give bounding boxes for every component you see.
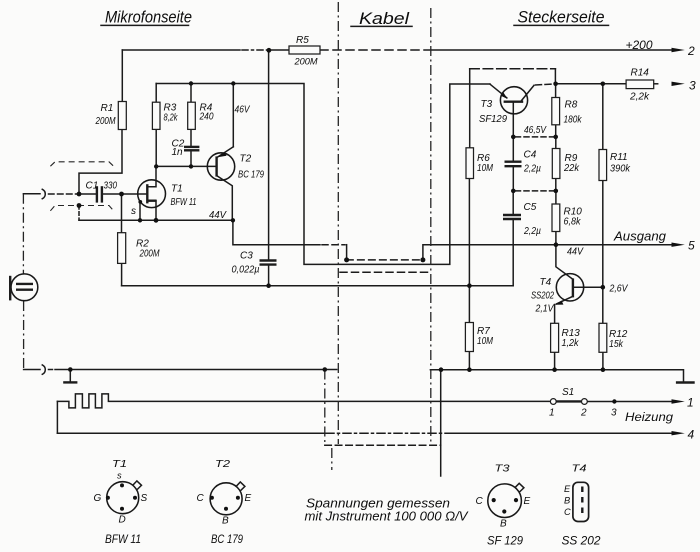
- svg-text:B: B: [564, 496, 570, 506]
- svg-text:2,1V: 2,1V: [535, 304, 555, 315]
- svg-text:C3: C3: [240, 251, 253, 262]
- svg-text:2,2µ: 2,2µ: [523, 164, 541, 175]
- svg-text:44V: 44V: [209, 210, 227, 221]
- svg-text:4: 4: [688, 428, 695, 442]
- svg-text:200M: 200M: [139, 249, 160, 260]
- svg-text:T1: T1: [171, 184, 183, 195]
- svg-text:E: E: [524, 496, 531, 507]
- svg-text:C: C: [476, 496, 484, 507]
- svg-text:+200: +200: [626, 40, 654, 52]
- svg-text:D: D: [119, 515, 126, 526]
- svg-text:0,022µ: 0,022µ: [232, 265, 260, 276]
- svg-text:2: 2: [687, 44, 695, 58]
- svg-text:SS 202: SS 202: [562, 534, 601, 548]
- svg-text:Ausgang: Ausgang: [613, 230, 666, 244]
- svg-text:180k: 180k: [564, 115, 583, 126]
- svg-text:Spannungen gemessen: Spannungen gemessen: [306, 497, 450, 511]
- svg-text:S: S: [141, 493, 148, 504]
- svg-text:2,6V: 2,6V: [609, 284, 629, 295]
- svg-text:E: E: [245, 493, 252, 504]
- svg-text:Heizung: Heizung: [625, 410, 673, 424]
- svg-text:390k: 390k: [610, 164, 631, 175]
- svg-text:s: s: [117, 471, 122, 481]
- svg-text:C1: C1: [86, 181, 99, 192]
- svg-text:46V: 46V: [235, 105, 251, 116]
- svg-text:15k: 15k: [609, 339, 624, 350]
- svg-text:8,2k: 8,2k: [164, 113, 179, 124]
- svg-text:Steckerseite: Steckerseite: [518, 8, 605, 27]
- svg-text:BC 179: BC 179: [238, 170, 264, 181]
- svg-text:R14: R14: [631, 68, 650, 79]
- svg-text:T4: T4: [540, 277, 552, 288]
- svg-text:R5: R5: [296, 35, 309, 46]
- svg-text:B: B: [222, 516, 229, 527]
- svg-text:mit Jnstrument 100 000 Ω/V: mit Jnstrument 100 000 Ω/V: [305, 510, 470, 524]
- svg-text:5: 5: [688, 239, 695, 253]
- svg-text:1n: 1n: [172, 147, 184, 158]
- svg-text:200M: 200M: [95, 116, 116, 127]
- svg-text:Kabel: Kabel: [359, 9, 410, 28]
- svg-text:C: C: [197, 493, 205, 504]
- svg-text:T4: T4: [572, 464, 588, 475]
- svg-text:C4: C4: [524, 150, 537, 161]
- svg-text:330: 330: [104, 181, 118, 192]
- svg-text:T2: T2: [215, 459, 231, 470]
- svg-text:2,2k: 2,2k: [629, 92, 650, 103]
- svg-text:S1: S1: [562, 387, 574, 398]
- svg-text:SF129: SF129: [479, 114, 507, 125]
- svg-text:10M: 10M: [477, 163, 494, 174]
- svg-text:E: E: [564, 484, 571, 494]
- svg-text:T3: T3: [481, 99, 493, 110]
- svg-text:SS202: SS202: [531, 291, 554, 302]
- svg-text:SF 129: SF 129: [487, 534, 523, 548]
- svg-text:2,2µ: 2,2µ: [523, 226, 541, 237]
- svg-text:1,2k: 1,2k: [562, 338, 580, 349]
- svg-text:BFW 11: BFW 11: [171, 197, 197, 208]
- svg-text:s: s: [131, 206, 136, 217]
- svg-text:T1: T1: [112, 459, 127, 470]
- svg-text:C5: C5: [524, 202, 537, 213]
- svg-text:R8: R8: [565, 100, 578, 111]
- svg-text:10M: 10M: [477, 336, 494, 347]
- svg-text:44V: 44V: [567, 247, 584, 258]
- svg-text:200M: 200M: [294, 57, 318, 67]
- svg-text:T2: T2: [240, 154, 252, 165]
- svg-text:R1: R1: [101, 103, 114, 114]
- svg-text:1: 1: [687, 396, 694, 410]
- svg-text:3: 3: [611, 408, 617, 419]
- svg-text:Mikrofonseite: Mikrofonseite: [105, 8, 192, 27]
- svg-text:2: 2: [580, 408, 587, 419]
- svg-text:T3: T3: [495, 464, 511, 475]
- svg-text:46,5V: 46,5V: [524, 125, 547, 136]
- svg-text:1: 1: [549, 408, 555, 419]
- svg-text:R11: R11: [610, 152, 628, 163]
- svg-text:6,8k: 6,8k: [564, 217, 582, 228]
- svg-text:BFW 11: BFW 11: [105, 532, 141, 546]
- svg-text:C: C: [564, 507, 571, 517]
- svg-text:B: B: [500, 519, 507, 530]
- svg-text:BC 179: BC 179: [211, 532, 243, 546]
- svg-text:240: 240: [199, 112, 214, 123]
- svg-text:22k: 22k: [563, 163, 580, 174]
- svg-text:G: G: [94, 493, 102, 504]
- svg-text:3: 3: [689, 79, 696, 93]
